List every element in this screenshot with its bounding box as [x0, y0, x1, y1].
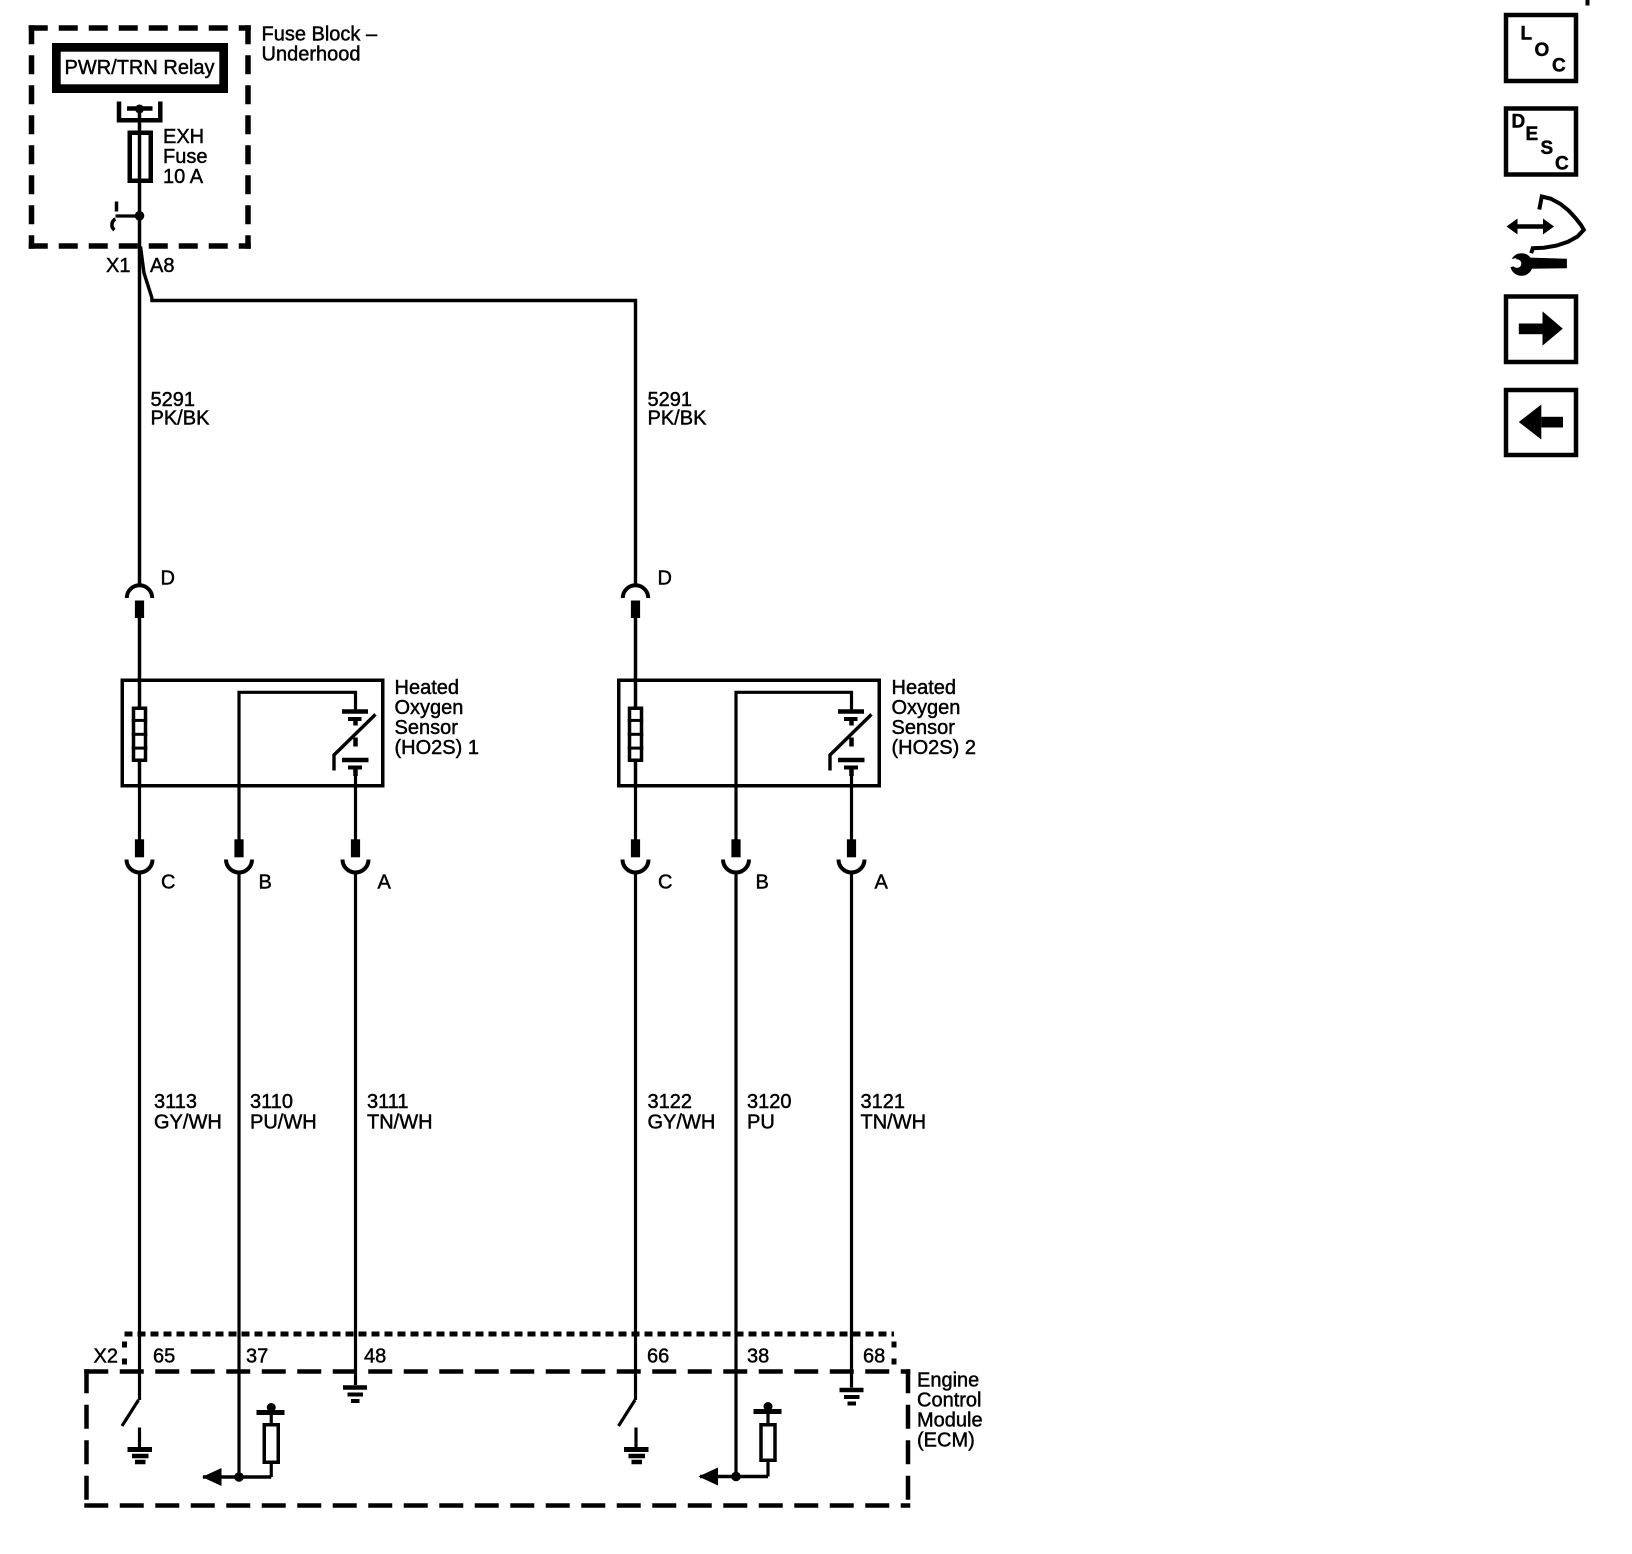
- wire: HO2S1 pin B down to connector: [237, 788, 240, 841]
- svg-text:(ECM): (ECM): [917, 1430, 975, 1452]
- svg-text:Engine: Engine: [917, 1370, 979, 1392]
- switch to ground at pin 65: [122, 1400, 139, 1426]
- sensor element HO2S1 (variable cell): [334, 712, 376, 777]
- svg-text:3122: 3122: [648, 1091, 693, 1113]
- wire: HO2S1 pin C down to connector: [138, 788, 141, 841]
- svg-text:X1: X1: [106, 255, 130, 277]
- svg-text:Oxygen: Oxygen: [892, 697, 961, 719]
- wire: HO2S2 pin C down to connector: [634, 788, 637, 841]
- relay terminal cup: [119, 102, 160, 121]
- svg-text:C: C: [161, 872, 175, 894]
- heater element HO2S1: [132, 708, 148, 760]
- svg-text:Fuse: Fuse: [163, 146, 207, 168]
- wire: D to HO2S1 box: [138, 618, 142, 707]
- svg-text:Control: Control: [917, 1390, 981, 1412]
- fuse EXH 10 A: [130, 133, 151, 181]
- svg-text:PK/BK: PK/BK: [648, 408, 708, 430]
- wire: pin 38 horizontal to arrow: [700, 1475, 768, 1479]
- svg-text:10 A: 10 A: [163, 166, 204, 188]
- svg-text:(HO2S) 2: (HO2S) 2: [892, 737, 976, 759]
- svg-text:X2: X2: [94, 1346, 118, 1368]
- terminal hook at X1 junction: [112, 202, 117, 231]
- svg-text:Heated: Heated: [892, 677, 957, 699]
- wire 3111 TN/WH (A left to ECM pin 48): [354, 874, 357, 1385]
- connector D right (arc + male stub): [623, 568, 672, 619]
- svg-text:EXH: EXH: [163, 126, 204, 148]
- svg-text:Oxygen: Oxygen: [395, 697, 464, 719]
- switch to ground at pin 66: [619, 1400, 636, 1426]
- double arrow: [1514, 224, 1547, 229]
- svg-text:37: 37: [246, 1346, 268, 1368]
- relay PWR/TRN Relay: [52, 43, 228, 93]
- HO2S1 sensor box: [122, 680, 383, 786]
- svg-text:PK/BK: PK/BK: [151, 408, 211, 430]
- svg-text:Module: Module: [917, 1410, 983, 1432]
- ground at pin 48: [343, 1388, 367, 1402]
- ECM dashed box: [84, 1369, 910, 1508]
- svg-text:Fuse Block –: Fuse Block –: [262, 24, 378, 46]
- svg-text:65: 65: [153, 1346, 175, 1368]
- wrench: [1510, 253, 1533, 276]
- wire: HO2S1 internal B riser and top run: [239, 692, 356, 787]
- icon LOC box: [1506, 15, 1576, 81]
- connector C left (stub + arc): [127, 839, 176, 893]
- wire 3113 GY/WH (C left to ECM pin 65): [138, 874, 141, 1400]
- svg-text:A: A: [378, 872, 392, 894]
- svg-text:E: E: [1526, 124, 1539, 145]
- connector B left (stub + arc): [226, 839, 272, 893]
- svg-text:C: C: [1552, 56, 1566, 77]
- wire 3121 TN/WH (A right to ECM pin 68): [850, 874, 853, 1388]
- svg-text:PU/WH: PU/WH: [250, 1112, 317, 1134]
- wire 3122 GY/WH (C right to ECM pin 66): [634, 874, 637, 1400]
- svg-text:48: 48: [364, 1346, 386, 1368]
- wire: HO2S2 internal B riser and top run: [736, 692, 852, 787]
- node: junction dot above X1: [135, 211, 145, 221]
- loop outline: [1531, 197, 1584, 254]
- wire: junction horizontal stub: [116, 214, 140, 217]
- arrow (signal out) at pin 38: [699, 1468, 719, 1486]
- svg-text:3113: 3113: [154, 1091, 197, 1113]
- heater element HO2S2: [628, 708, 644, 760]
- ECM connector row left tick: [122, 1342, 127, 1365]
- connector D left (arc + male stub): [127, 568, 175, 619]
- wire: branch from X1/A8 to right sensor (diagonal, horizontal, vertical): [141, 247, 636, 585]
- svg-text:O: O: [1535, 40, 1550, 61]
- ground at pin 68: [840, 1390, 864, 1404]
- icon arrow left box: [1506, 390, 1576, 455]
- icon wrench with arrows: [1500, 197, 1584, 276]
- svg-text:D: D: [1512, 112, 1526, 133]
- connector C right (stub + arc): [623, 839, 673, 893]
- wire: D to HO2S2 box: [634, 618, 638, 707]
- svg-text:S: S: [1541, 138, 1554, 159]
- svg-text:Sensor: Sensor: [892, 717, 956, 739]
- resistor at pin 38: [754, 1402, 782, 1477]
- svg-text:C: C: [658, 872, 672, 894]
- icon arrow right box: [1506, 297, 1576, 363]
- wire: relay output down through fuse to connector D (left 5291 feed): [138, 107, 142, 584]
- svg-text:A: A: [875, 872, 889, 894]
- svg-text:GY/WH: GY/WH: [154, 1112, 222, 1134]
- wire: HO2S1 pin A down to connector: [354, 788, 357, 841]
- svg-text:B: B: [259, 872, 272, 894]
- wire 3110 PU/WH (B left to ECM pin 37): [237, 874, 240, 1477]
- connector B right (stub + arc): [723, 839, 769, 893]
- wire: pin 37 horizontal to arrow: [203, 1475, 271, 1479]
- wire: HO2S2 pin B down to connector: [734, 788, 737, 841]
- wire 3120 PU (B right to ECM pin 38): [734, 874, 737, 1477]
- connector A left (stub + arc): [343, 839, 392, 893]
- svg-text:B: B: [756, 872, 769, 894]
- svg-text:3110: 3110: [250, 1091, 293, 1113]
- ground at pin 66: [624, 1428, 649, 1463]
- svg-text:GY/WH: GY/WH: [648, 1112, 716, 1134]
- svg-text:TN/WH: TN/WH: [861, 1112, 927, 1134]
- svg-text:PU: PU: [747, 1112, 775, 1134]
- svg-text:L: L: [1521, 24, 1533, 45]
- svg-text:38: 38: [747, 1346, 769, 1368]
- fuse block underhood dashed box: [29, 25, 251, 249]
- resistor at pin 37: [257, 1403, 285, 1477]
- wire: HO2S2 pin A down to connector: [850, 788, 853, 841]
- ECM connector row right tick: [892, 1342, 897, 1365]
- svg-text:PWR/TRN Relay: PWR/TRN Relay: [65, 57, 215, 79]
- node: pin 38 junction dot: [731, 1472, 741, 1482]
- svg-text:3121: 3121: [861, 1091, 906, 1113]
- wire: sensor element to box bottom (pin A): [354, 776, 357, 788]
- ECM connector row X2 (dotted): [125, 1332, 895, 1337]
- svg-text:68: 68: [863, 1346, 885, 1368]
- arrow (signal out) at pin 37: [202, 1468, 222, 1486]
- wire: heater bottom to box bottom (pin C right): [634, 762, 638, 788]
- wire: sensor element to box bottom (pin A right): [850, 776, 853, 788]
- wire: heater bottom to box bottom (pin C): [138, 762, 142, 788]
- svg-text:D: D: [658, 568, 672, 590]
- svg-text:D: D: [161, 568, 175, 590]
- svg-text:Sensor: Sensor: [395, 717, 459, 739]
- svg-text:66: 66: [647, 1346, 669, 1368]
- svg-text:(HO2S) 1: (HO2S) 1: [395, 737, 479, 759]
- svg-text:3111: 3111: [367, 1091, 409, 1113]
- svg-text:Heated: Heated: [395, 677, 460, 699]
- sensor element HO2S2 (variable cell): [830, 712, 872, 777]
- svg-text:Underhood: Underhood: [262, 44, 361, 66]
- tiny page mark top right: [1586, 0, 1590, 6]
- svg-text:C: C: [1555, 154, 1569, 175]
- icon DESC box: [1506, 109, 1576, 175]
- svg-text:3120: 3120: [747, 1091, 792, 1113]
- node: pin 37 junction dot: [234, 1472, 244, 1482]
- ground at pin 65: [128, 1428, 153, 1463]
- svg-text:A8: A8: [150, 255, 174, 277]
- HO2S2 sensor box: [619, 680, 880, 786]
- node: relay output junction dot: [135, 105, 144, 114]
- svg-text:TN/WH: TN/WH: [367, 1112, 433, 1134]
- connector A right (stub + arc): [839, 839, 889, 893]
